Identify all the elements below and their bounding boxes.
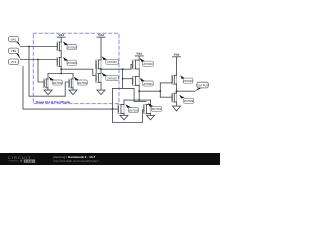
label M4 (74, 77, 88, 85)
inverter shared gate bar (95, 65, 97, 82)
wire M7-M8 (138, 69, 140, 77)
wire M2 drain to NOR node (60, 66, 62, 73)
node dot bus stage1 (60, 73, 62, 75)
wire M5-M6 (100, 69, 102, 74)
node dot inverter out (100, 68, 102, 70)
svg-text:2N7000: 2N7000 (152, 107, 162, 111)
wire down to bus level (133, 89, 135, 102)
wire inverter out (101, 68, 131, 70)
svg-text:VC1: VC1 (11, 60, 17, 64)
wire B branch down to M3 gate (38, 60, 44, 83)
ground GND2 (69, 90, 77, 95)
svg-text:Vdd: Vdd (136, 52, 142, 56)
node dot stage3 gate (159, 90, 161, 92)
wire M4 to ground (72, 88, 74, 90)
svg-text:2N7000: 2N7000 (143, 82, 153, 86)
wire A horizontal (21, 46, 58, 48)
input terminal VA (8, 36, 20, 46)
node dot stage2 out (138, 90, 140, 92)
wire NMOS drain bus stage2 (124, 99, 151, 101)
wire stage2 out to stage3 (139, 90, 160, 92)
label M9 (125, 104, 138, 112)
svg-text:2N7000: 2N7000 (183, 79, 193, 83)
svg-text:2N7000: 2N7000 (67, 45, 77, 49)
wire M8 drain down to NMOS bus (138, 85, 140, 100)
wire M6 to ground (100, 82, 102, 90)
transistor M6 inverter NMOS (96, 74, 101, 83)
wire to M12 gate (160, 96, 172, 98)
transistor M7 PMOS (132, 60, 139, 69)
label M5 (102, 56, 119, 64)
wire C riser (112, 89, 114, 110)
node dot C riser (112, 108, 114, 110)
svg-text:2N7000: 2N7000 (107, 60, 117, 64)
transistor M2 PMOS (57, 58, 61, 67)
svg-text:VA1: VA1 (11, 37, 17, 41)
node dot bus (138, 99, 140, 101)
label M3 (49, 77, 63, 85)
wire stage3 gate bar (159, 83, 161, 97)
svg-text:2N7000: 2N7000 (53, 81, 63, 85)
power VDD3 (135, 52, 143, 61)
wire under-route to M10 gate (113, 109, 145, 122)
output terminal OUT (195, 82, 209, 91)
wire C down and around (23, 67, 119, 110)
ground GND3 (97, 90, 105, 95)
transistor M11 PMOS (172, 75, 177, 84)
ground GND5 (147, 115, 155, 120)
wire M9 to ground (123, 113, 125, 115)
wire to M11 gate (160, 82, 172, 84)
wire M12 to ground (176, 102, 178, 106)
node dot output (176, 90, 178, 92)
label M7 (140, 58, 154, 66)
svg-text:2N7000: 2N7000 (78, 81, 88, 85)
wire to M8 gate (123, 78, 133, 80)
power VDD2 (97, 33, 105, 60)
footer bar (0, 153, 220, 165)
wire to M7 gate (131, 64, 133, 69)
wire M9 top lead (123, 100, 125, 105)
label M11 (180, 75, 193, 83)
transistor M4 NMOS (69, 79, 73, 88)
wire M11-M12 (176, 84, 178, 93)
wire A branch down (28, 47, 30, 97)
label M2 (63, 57, 77, 65)
wire B horizontal (21, 59, 58, 61)
dashed annotation box (Figure 13.4 The OR gate) (33, 33, 119, 103)
node dot B branch (37, 59, 39, 61)
ground GND1 (44, 90, 52, 95)
input terminal VC (8, 59, 23, 67)
wire to output terminal (177, 90, 195, 92)
transistor M3 NMOS (44, 79, 48, 88)
wire M10 top lead (150, 100, 152, 105)
node dot NOR out (60, 68, 62, 70)
transistor M9 NMOS (118, 105, 124, 114)
wire M3 top lead (47, 74, 49, 80)
wire up to M4 gate (65, 82, 69, 96)
wire NMOS drain bus stage1 (48, 73, 73, 75)
power VDD4 (173, 53, 181, 76)
svg-text:2N7000: 2N7000 (67, 61, 77, 65)
label M8 (140, 78, 154, 86)
node dot or-out branch (122, 68, 124, 70)
transistor M1 PMOS (57, 42, 61, 51)
svg-text:2N7000: 2N7000 (129, 108, 139, 112)
svg-text:LAB: LAB (25, 159, 33, 163)
wire jog horizontal (113, 88, 135, 90)
svg-text:Vdd: Vdd (174, 53, 180, 57)
label M6 (102, 73, 119, 81)
transistor M5 inverter PMOS (96, 60, 101, 69)
svg-text:VB1: VB1 (11, 49, 17, 53)
ground GND6 (173, 106, 181, 111)
wire M1-M2 (60, 51, 62, 58)
svg-text:2N7000: 2N7000 (107, 76, 117, 80)
transistor M12 NMOS (172, 93, 177, 102)
svg-text:2N7000: 2N7000 (184, 99, 194, 103)
wire or-out down leg (122, 69, 124, 88)
power VDD1 (57, 33, 65, 42)
transistor M8 PMOS (132, 77, 139, 86)
node dot A branch (28, 46, 30, 48)
wire below bus (134, 101, 146, 103)
input terminal VB (8, 48, 20, 60)
svg-text:Vdd: Vdd (98, 33, 104, 37)
svg-text:2N7000: 2N7000 (143, 62, 153, 66)
svg-text:http://circuitlab.com/c/qw42fy: http://circuitlab.com/c/qw42fyhqbu7 (54, 159, 100, 163)
svg-text:Vdd: Vdd (58, 33, 64, 37)
svg-text:OUTPUT: OUTPUT (197, 83, 209, 87)
label M10 (148, 103, 162, 111)
wire NOR out to inverter gate (61, 69, 96, 75)
transistor M10 NMOS (143, 105, 150, 114)
svg-text:Figure 13.4 a) The OR gate: Figure 13.4 a) The OR gate (36, 100, 71, 104)
wire under ground G1 (29, 95, 65, 97)
wire M10 to ground (150, 113, 152, 115)
node dot M8 gate tee (122, 78, 124, 80)
label M12 (179, 95, 194, 104)
wire M3 to ground (47, 88, 49, 90)
wire M4 top lead (72, 74, 74, 80)
ground GND4 (120, 115, 128, 120)
label M1 (63, 41, 77, 49)
